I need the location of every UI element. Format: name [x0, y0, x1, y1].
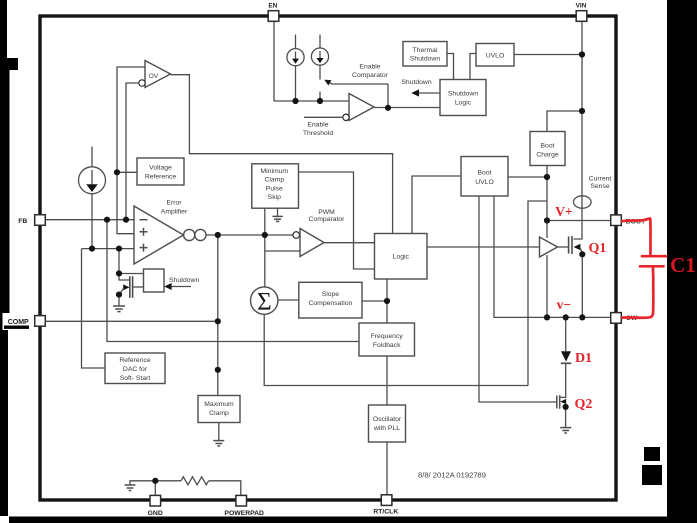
- wire summer to slope compensation: [278, 299, 299, 301]
- block Voltage Reference: [137, 158, 184, 185]
- svg-text:with PLL: with PLL: [373, 425, 400, 432]
- wire slope compensation output to logic bottom node: [362, 300, 387, 302]
- inverting bubble on PWM comparator input: [293, 232, 300, 239]
- node dot slope comp / logic: [384, 298, 390, 304]
- capacitor C1 bottom plate: [640, 265, 664, 268]
- svg-text:Voltage: Voltage: [149, 165, 172, 172]
- inverting bubble on OV input: [139, 80, 145, 86]
- svg-text:Shutdown: Shutdown: [169, 277, 199, 284]
- block Shutdown Logic: [440, 80, 486, 116]
- node dot COMP rail: [215, 318, 221, 324]
- black marker bar left middle: [0, 70, 10, 313]
- shutdown drive arrow: [166, 286, 191, 288]
- svg-text:PWM: PWM: [318, 209, 335, 216]
- black marker bar left lower: [0, 330, 8, 516]
- wire hysteresis control to comparator output node: [387, 84, 389, 108]
- wire Q1 source to SW rail: [581, 251, 583, 317]
- wire stub above current source I2: [319, 35, 321, 49]
- wire GND net with ground symbol: [130, 481, 181, 485]
- block Slope Compensation: [299, 282, 362, 318]
- wire boot charge down to boot node: [546, 166, 548, 239]
- block Oscillator with PLL: [369, 405, 406, 442]
- block Maximum Clamp: [198, 396, 240, 423]
- node dot shutdown FET drain: [116, 270, 122, 276]
- svg-text:Logic: Logic: [393, 254, 410, 261]
- node dot shutdown FET source: [116, 292, 122, 298]
- block Boot UVLO: [461, 157, 508, 197]
- block Frequency Foldback: [359, 323, 415, 356]
- black square mark 1 bottom right: [644, 447, 660, 461]
- resistor between GND and POWERPAD: [181, 477, 209, 485]
- wire current source I2 to switch: [319, 65, 321, 79]
- svg-text:Q1: Q1: [589, 241, 607, 256]
- wire summer bottom to SW sense line: [264, 314, 528, 385]
- node dot boot charge output: [544, 174, 550, 180]
- current source I3 (soft start) stub above: [91, 147, 93, 167]
- wire gate driver bottom rail to SW: [546, 255, 548, 317]
- black band right edge: [667, 0, 697, 523]
- capacitor C1 top plate: [642, 255, 666, 258]
- wire VIN node to boot charge: [547, 111, 582, 132]
- shutdown signal arrow: [414, 92, 440, 94]
- node dot error amp output: [215, 232, 221, 238]
- node dot voltage reference: [114, 169, 120, 175]
- svg-text:Q2: Q2: [575, 397, 593, 412]
- svg-text:8/8/ 2012A 0192789: 8/8/ 2012A 0192789: [418, 471, 486, 480]
- wire SW rail down to diode D1: [565, 317, 567, 351]
- block UVLO: [476, 44, 514, 67]
- svg-text:FB: FB: [18, 218, 27, 225]
- svg-text:Error: Error: [166, 200, 182, 207]
- svg-text:Thermal: Thermal: [413, 47, 438, 54]
- svg-text:Maximum: Maximum: [204, 401, 234, 408]
- node dot reference DAC output: [215, 367, 221, 373]
- ground under Q2: [560, 428, 571, 433]
- wire OV top input: [117, 67, 145, 172]
- transistor M1 shutdown FET: [119, 273, 129, 280]
- current sense ellipse: [574, 196, 592, 208]
- block Boot Charge: [530, 132, 565, 166]
- svg-text:COMP: COMP: [8, 319, 29, 326]
- hysteresis switch control wire with arrow: [326, 81, 388, 84]
- diode D1: [561, 351, 571, 361]
- wire FB node down to frequency foldback: [107, 220, 359, 342]
- svg-text:Shutdown: Shutdown: [410, 56, 440, 63]
- svg-text:Boot: Boot: [478, 170, 492, 177]
- wire UVLO to shutdown logic: [470, 54, 476, 80]
- svg-text:Reference: Reference: [119, 357, 151, 364]
- wire oscillator to RT/CLK pin: [386, 442, 388, 495]
- op-amp gate driver U2: [540, 237, 558, 257]
- svg-text:v−: v−: [557, 297, 571, 312]
- wire shutdown FET drain from soft-start rail: [118, 249, 120, 274]
- svg-text:Threshold: Threshold: [303, 130, 333, 137]
- node dot BOOT rail: [544, 217, 550, 223]
- svg-text:Comparator: Comparator: [352, 72, 389, 79]
- pin BOOT: [611, 215, 622, 226]
- node dot soft-start rail / I3: [89, 246, 95, 252]
- node dot FB rail left: [104, 217, 110, 223]
- current source I3 circle: [79, 167, 106, 194]
- node dot soft-start rail / shutdown FET: [116, 246, 122, 252]
- IC boundary frame: [40, 16, 616, 500]
- red wire BOOT pin to capacitor C1 top plate: [622, 218, 651, 254]
- wire soft-start rail to error amp + input: [82, 248, 135, 250]
- svg-text:DAC for: DAC for: [123, 366, 148, 373]
- svg-text:Clamp: Clamp: [209, 410, 229, 417]
- wire resistor to POWERPAD pin: [209, 481, 241, 496]
- wire enable comparator output to shutdown logic: [374, 107, 440, 109]
- ground under maximum clamp: [213, 441, 224, 446]
- svg-text:Reference: Reference: [145, 174, 177, 181]
- node dot SW / diode D1: [563, 314, 569, 320]
- wire frequency foldback down to oscillator: [386, 356, 388, 405]
- svg-text:Charge: Charge: [536, 152, 559, 159]
- black band bottom edge: [9, 517, 697, 523]
- current source I1 (pull-up on EN): [287, 49, 304, 66]
- svg-text:V+: V+: [555, 204, 572, 219]
- black marker sliver beside COMP: [0, 313, 3, 330]
- node dot EN / I1: [292, 98, 298, 104]
- svg-text:Shutdown: Shutdown: [401, 79, 431, 86]
- node dot SW / driver rail: [544, 314, 550, 320]
- wire BOOT rail to BOOT pin: [547, 220, 611, 222]
- node dot Q2 source: [563, 404, 569, 410]
- ground under shutdown FET: [113, 306, 125, 312]
- pin GND: [150, 495, 161, 506]
- wire minimum clamp bottom to ramp node and summer with branch to PWM input: [264, 208, 266, 287]
- svg-text:Skip: Skip: [268, 194, 281, 201]
- wire current source I1 to EN node: [295, 66, 297, 101]
- node dot FB rail right: [123, 217, 129, 223]
- wire shutdown FET gate to shutdown box: [133, 286, 144, 288]
- wire vref node down to error amp + input: [117, 172, 135, 233]
- error amp input signs: [140, 219, 148, 221]
- wire boot UVLO right to boot node: [508, 176, 547, 178]
- node dot enable comparator output: [385, 105, 391, 111]
- pin COMP: [35, 316, 46, 327]
- black square mark 2 bottom right: [642, 465, 662, 485]
- wire shutdown FET source to ground: [118, 295, 120, 306]
- wire COMP pin to rail: [45, 320, 218, 322]
- wire shutdown FET drain node to box: [119, 273, 144, 275]
- svg-text:Clamp: Clamp: [264, 177, 284, 184]
- current source I2 (hysteresis): [311, 48, 328, 65]
- wire minimum clamp to logic: [299, 172, 375, 269]
- block Reference DAC for Soft-Start: [105, 353, 165, 384]
- red wire capacitor C1 bottom to SW pin: [622, 269, 653, 318]
- wire EN pin down and across to enable comparator: [274, 21, 349, 101]
- wire COMP node vertical: [217, 235, 219, 396]
- wire voltage reference to vref node: [117, 171, 137, 173]
- svg-text:UVLO: UVLO: [486, 53, 505, 60]
- op-amp OV comparator: [145, 61, 171, 88]
- wire FB rail to error amp inverting input: [45, 219, 134, 221]
- node dot EN / I2: [317, 98, 323, 104]
- svg-text:Boot: Boot: [541, 143, 555, 150]
- wire VIN rail down to Q1 drain: [574, 21, 583, 239]
- svg-text:Minimum: Minimum: [261, 168, 289, 175]
- node dot VIN / UVLO: [579, 51, 585, 57]
- svg-text:Pulse: Pulse: [266, 185, 283, 192]
- svg-text:VIN: VIN: [576, 3, 587, 10]
- wire gate driver to Q1 gate: [558, 246, 569, 248]
- wire OV output to logic: [171, 75, 393, 234]
- wire GND pin stub: [154, 481, 156, 496]
- svg-text:Compensation: Compensation: [308, 300, 352, 307]
- wire switch stub to EN node: [319, 92, 321, 102]
- wire boot UVLO left to logic: [412, 176, 461, 234]
- op-amp error amplifier: [134, 206, 184, 264]
- transistor Q1 high side FET: [568, 237, 570, 254]
- svg-text:Slope: Slope: [322, 291, 340, 298]
- pin FB: [35, 215, 46, 226]
- block Thermal Shutdown: [403, 42, 447, 67]
- summer circle: [251, 287, 278, 314]
- node dot SW / Q1 source: [579, 314, 585, 320]
- pin SW: [611, 313, 622, 324]
- svg-text:Amplifier: Amplifier: [161, 209, 188, 216]
- black marker bar left top: [0, 0, 7, 59]
- node dot Q1 source: [579, 251, 585, 257]
- wire minimum clamp ground stub: [277, 208, 279, 216]
- svg-text:Sense: Sense: [590, 183, 609, 190]
- pin POWERPAD: [236, 495, 247, 506]
- pin EN: [268, 11, 279, 22]
- node dot ramp branch: [262, 232, 268, 238]
- svg-text:Soft- Start: Soft- Start: [120, 375, 151, 382]
- black marker stub left: [0, 58, 18, 70]
- svg-text:Enable: Enable: [307, 122, 328, 129]
- svg-text:Foldback: Foldback: [373, 342, 401, 349]
- pin RT/CLK: [381, 495, 392, 506]
- wire thermal shutdown to shutdown logic: [447, 54, 454, 80]
- ground under minimum clamp: [272, 216, 282, 221]
- svg-text:OV: OV: [149, 73, 159, 80]
- svg-text:D1: D1: [575, 351, 592, 366]
- svg-text:Enable: Enable: [359, 64, 380, 71]
- error amp output double bubbles: [184, 229, 195, 240]
- svg-text:GND: GND: [148, 510, 163, 517]
- wire error amp output rail to PWM comparator: [206, 234, 293, 236]
- svg-text:C1: C1: [670, 253, 696, 277]
- svg-text:Comparator: Comparator: [309, 216, 346, 223]
- op-amp PWM comparator: [300, 229, 324, 257]
- wire stub above current source I1: [295, 35, 297, 49]
- wire Q2 source to ground: [565, 407, 567, 427]
- wire maximum clamp ground stub: [218, 423, 220, 441]
- svg-text:EN: EN: [268, 3, 277, 10]
- wire diode D1 to Q2 drain: [560, 364, 566, 397]
- black marker underline below COMP: [4, 326, 29, 329]
- block Logic: [375, 234, 428, 280]
- svg-text:Current: Current: [589, 176, 612, 183]
- wire OV bubble input from FB rail: [126, 83, 139, 220]
- wire UVLO to VIN rail: [514, 54, 582, 56]
- wire reference DAC up to soft-start rail: [82, 249, 106, 368]
- svg-text:UVLO: UVLO: [475, 179, 494, 186]
- wire logic bottom to frequency foldback: [386, 279, 388, 323]
- svg-text:Oscillator: Oscillator: [373, 416, 402, 423]
- wire logic output to gate driver: [427, 246, 540, 248]
- op-amp enable comparator: [349, 94, 374, 121]
- transistor Q2 low side FET: [556, 396, 558, 409]
- svg-text:Frequency: Frequency: [371, 333, 404, 340]
- wire boot UVLO to Q2 gate: [479, 196, 556, 402]
- node dot VIN / boot charge: [579, 108, 585, 114]
- ground at GND net: [125, 485, 136, 491]
- wire PWM comparator output to logic: [324, 242, 375, 244]
- wire boot UVLO to SW rail and SW pin: [494, 196, 611, 317]
- svg-text:RT/CLK: RT/CLK: [373, 509, 398, 516]
- inverting bubble on enable comparator input: [343, 114, 349, 120]
- svg-text:Shutdown: Shutdown: [448, 91, 478, 98]
- wire current source I3 down to soft-start rail: [91, 194, 93, 249]
- node dot GND net: [152, 478, 158, 484]
- block Minimum Clamp Pulse Skip: [252, 164, 299, 208]
- wire boot node branch down to slope sense line: [528, 201, 547, 386]
- svg-text:POWERPAD: POWERPAD: [224, 510, 264, 517]
- svg-text:Logic: Logic: [455, 100, 472, 107]
- svg-text:Σ: Σ: [257, 289, 272, 316]
- shutdown drive box: [144, 269, 165, 292]
- wire enable threshold input stub: [304, 116, 343, 118]
- pin VIN: [576, 11, 587, 22]
